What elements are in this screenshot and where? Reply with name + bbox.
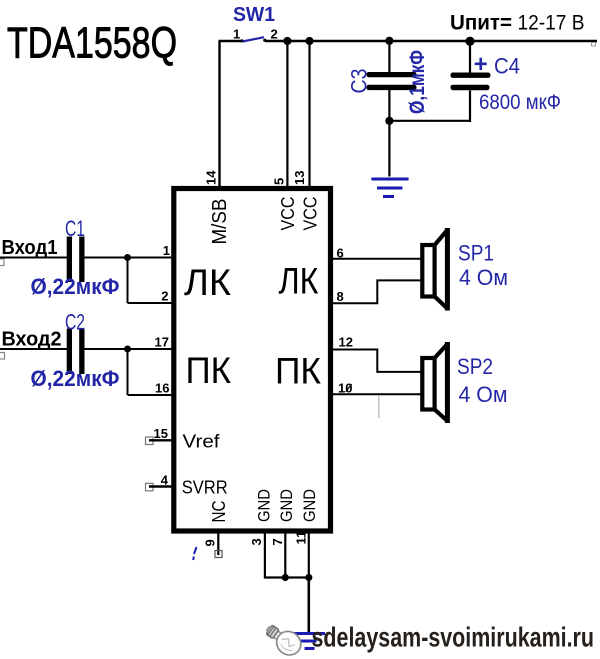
- svg-text:Вход2: Вход2: [2, 329, 62, 351]
- wire pin9: [217, 534, 219, 556]
- svg-text:SP2: SP2: [457, 354, 493, 379]
- svg-text:ПК: ПК: [186, 350, 232, 391]
- wire pin10: [331, 393, 422, 395]
- svg-text:M/SB: M/SB: [209, 199, 231, 245]
- switch SW1: [233, 4, 278, 42]
- wire power rail right segment: [265, 40, 597, 42]
- pad input2: [0, 353, 5, 360]
- svg-text:5: 5: [272, 178, 287, 185]
- svg-text:sdelaysam-svoimirukami.ru: sdelaysam-svoimirukami.ru: [312, 622, 595, 653]
- junction dot input2: [124, 346, 131, 353]
- wire C4 bottom: [469, 91, 471, 123]
- svg-text:1: 1: [163, 243, 170, 258]
- svg-text:ЛК: ЛК: [184, 262, 231, 303]
- junction dot C3/C4 node: [385, 117, 393, 125]
- svg-text:NC: NC: [209, 501, 229, 523]
- pad pin15: [146, 437, 154, 445]
- svg-text:C1: C1: [65, 216, 85, 241]
- svg-text:6800 мкФ: 6800 мкФ: [479, 91, 561, 114]
- wire pin2 horizontal: [128, 302, 173, 304]
- svg-text:SVRR: SVRR: [182, 477, 228, 498]
- wire pin11 to ground: [307, 578, 310, 634]
- svg-text:12: 12: [339, 335, 353, 350]
- svg-text:Ø,1мкФ: Ø,1мкФ: [406, 50, 429, 114]
- svg-text:Vref: Vref: [183, 431, 221, 452]
- svg-text:SP1: SP1: [458, 241, 494, 266]
- svg-text:1: 1: [233, 27, 240, 42]
- wire C3 bottom to node: [388, 90, 390, 177]
- svg-text:ЛК: ЛК: [279, 261, 319, 302]
- svg-text:TDA1558Q: TDA1558Q: [7, 19, 177, 68]
- wire pin15: [149, 439, 172, 441]
- svg-text:GND: GND: [278, 489, 296, 522]
- wire pin16 vertical: [127, 349, 129, 395]
- junction dot rail/C3: [385, 37, 393, 45]
- svg-text:4 Ом: 4 Ом: [459, 382, 508, 407]
- svg-text:Uпит=: Uпит=: [450, 12, 512, 35]
- wire node horizontal C3-C4: [389, 120, 470, 122]
- junction dot rail/pin13: [305, 37, 313, 45]
- svg-text:10: 10: [338, 381, 352, 396]
- pad pin4: [146, 483, 154, 491]
- capacitor C3 plates: [367, 72, 417, 77]
- watermark bulb icon: [261, 619, 306, 659]
- svg-text:Ø,22мкФ: Ø,22мкФ: [31, 366, 120, 391]
- artifact blue mark: [194, 547, 197, 554]
- svg-text:3: 3: [249, 538, 264, 545]
- svg-text:4: 4: [161, 473, 169, 488]
- wire C3 top: [388, 41, 390, 73]
- svg-text:C4: C4: [494, 54, 520, 79]
- svg-text:7: 7: [270, 538, 285, 545]
- junction dot rail/C4: [465, 37, 474, 46]
- capacitor C1 plates: [67, 237, 72, 283]
- wire pin12: [331, 350, 422, 372]
- svg-text:9: 9: [203, 539, 218, 546]
- wire pin16 horizontal: [128, 394, 173, 396]
- svg-text:GND: GND: [301, 489, 319, 522]
- wire pin13 vertical: [308, 41, 310, 189]
- wire input2 right: [85, 348, 173, 350]
- svg-text:Вход1: Вход1: [2, 237, 58, 259]
- svg-text:C2: C2: [65, 310, 85, 335]
- svg-text:2: 2: [271, 27, 278, 42]
- capacitor C4 plates: [451, 73, 491, 78]
- svg-text:VCC: VCC: [301, 197, 321, 231]
- wire pin8: [331, 280, 422, 303]
- svg-text:ПК: ПК: [275, 351, 321, 392]
- svg-text:13: 13: [292, 171, 307, 185]
- ground bottom: [292, 634, 326, 649]
- svg-text:15: 15: [154, 426, 168, 441]
- ground top: [371, 179, 408, 197]
- svg-text:+: +: [474, 51, 488, 78]
- pad pin9: [215, 551, 222, 558]
- speaker SP2: [422, 342, 447, 423]
- svg-text:14: 14: [204, 170, 219, 185]
- wire pin6: [331, 258, 422, 260]
- svg-text:8: 8: [337, 289, 344, 304]
- artifact faint line: [378, 395, 380, 418]
- svg-text:2: 2: [161, 289, 168, 304]
- svg-text:12-17 В: 12-17 В: [518, 12, 585, 35]
- svg-text:VCC: VCC: [278, 197, 298, 231]
- wire pin14 vertical: [218, 41, 220, 189]
- junction dot input1: [124, 254, 131, 261]
- svg-text:4 Ом: 4 Ом: [459, 265, 508, 290]
- svg-text:16: 16: [155, 381, 169, 396]
- wire input2 left: [0, 348, 67, 350]
- wire power rail left segment: [219, 40, 243, 42]
- IC U1 TDA1558Q body: [174, 189, 331, 532]
- wire pin5 vertical: [286, 41, 288, 189]
- junction dot rail/pin5: [283, 37, 291, 45]
- svg-text:11: 11: [294, 531, 309, 545]
- wire C4 top: [469, 41, 471, 74]
- junction dot pin7: [282, 574, 289, 581]
- pad input1: [0, 259, 4, 266]
- junction dot pin11: [305, 574, 312, 581]
- pad power rail end: [592, 43, 596, 47]
- wire pin3: [265, 534, 309, 578]
- wire input1 right: [85, 257, 173, 259]
- wire pin7: [284, 534, 286, 578]
- wire input1 left: [0, 257, 67, 259]
- speaker SP1: [422, 228, 447, 311]
- svg-text:GND: GND: [256, 489, 274, 522]
- capacitor C2 plates: [67, 329, 72, 375]
- svg-text:C3: C3: [347, 69, 372, 94]
- wire pin11: [308, 534, 310, 578]
- wire pin4: [149, 485, 172, 487]
- wire pin2 vertical: [127, 258, 129, 304]
- svg-text:Ø,22мкФ: Ø,22мкФ: [31, 274, 120, 299]
- svg-text:17: 17: [155, 335, 169, 350]
- svg-text:SW1: SW1: [233, 4, 275, 26]
